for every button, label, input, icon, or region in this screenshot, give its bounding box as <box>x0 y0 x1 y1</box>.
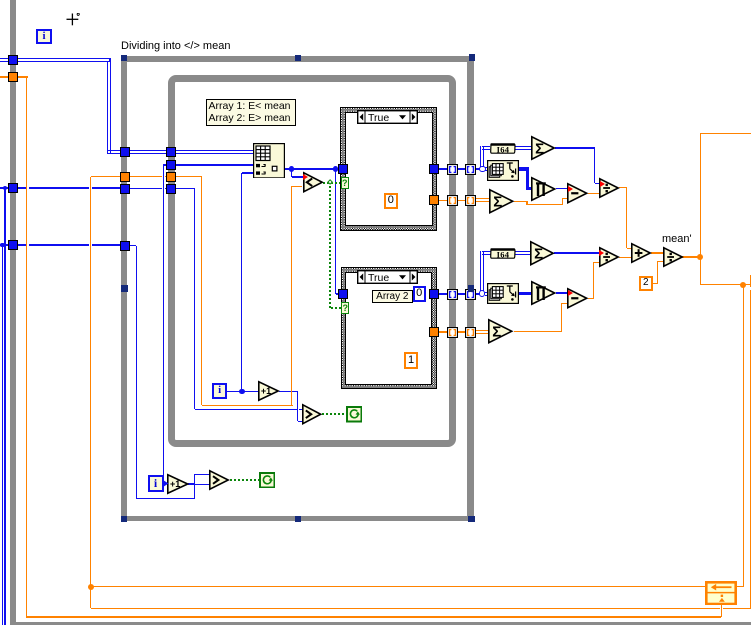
junction <box>289 166 295 172</box>
wire corner patch <box>107 152 109 155</box>
wire: divide2 out to add <box>619 257 632 258</box>
wire: array size down thick <box>526 167 530 190</box>
tunnel case2 right blue <box>429 289 439 299</box>
wire y245 into Dividing loop <box>18 244 26 245</box>
loop condition terminal inner <box>346 406 363 423</box>
wire: subtract2 out <box>588 298 594 299</box>
wire to junction 2 <box>476 293 480 295</box>
indexing tunnel loop2 blue y294 <box>465 289 476 300</box>
junction mean' <box>697 254 703 260</box>
wire between loop edges 2 <box>457 293 466 295</box>
wire: i into inner tunnel <box>163 164 168 165</box>
wire: 2D array to corner <box>18 58 111 62</box>
svg-text:+1: +1 <box>261 386 271 396</box>
while loop 1 left border <box>10 0 16 622</box>
tunnel loop2 blue y188 <box>120 184 130 194</box>
tunnel loop1 orange <box>8 72 18 82</box>
while loop 1 bottom border <box>10 622 751 625</box>
wire: sum down <box>594 148 595 183</box>
wire: 2 up <box>657 261 658 283</box>
boolean wire > to loop condition <box>322 413 347 415</box>
wire: prev mean seg2 <box>165 176 168 177</box>
wire: row down to case 2 <box>335 169 336 294</box>
wire: 1 constant <box>418 359 423 360</box>
wire: feedback output to left <box>91 586 706 587</box>
svg-text:Σ: Σ <box>492 324 501 341</box>
junction <box>3 186 8 191</box>
comment label box <box>206 99 296 126</box>
wire: sum orange out <box>514 201 528 202</box>
wire: DBL from left edge <box>0 76 11 77</box>
wire: right edge upper part <box>750 275 751 287</box>
junction circle 2 <box>479 290 486 297</box>
wire across <box>527 204 562 205</box>
indexing tunnel loop3 blue y294 <box>447 289 458 300</box>
Multiply Array Elements 1 <box>531 177 556 201</box>
wire into final divide bottom <box>658 261 663 262</box>
boolean wire to case2 selector <box>331 307 342 309</box>
wire: mean' to right edge <box>700 133 751 134</box>
wire I64 to sum 2 <box>515 251 530 255</box>
wire: array up to I64 2 <box>480 251 484 292</box>
wire: mean' down <box>700 257 701 285</box>
wire: 0 to case tunnel <box>397 200 430 201</box>
Subtract 2 <box>567 288 588 309</box>
wire y188 seg2 <box>29 187 89 188</box>
Greater? node bottom <box>209 470 229 490</box>
wire: sum out <box>555 147 595 148</box>
wire into divide2 bottom <box>594 262 599 263</box>
wire: DBL to corner <box>18 76 28 77</box>
tunnel loop3 2D array <box>166 147 176 157</box>
wire case1 to inner-loop tunnel <box>439 168 448 170</box>
wire: bottom long <box>91 608 720 609</box>
wire: inner i up to Index Array input 2 <box>241 173 242 392</box>
tunnel case1 right blue <box>429 164 439 174</box>
wire jog down <box>526 201 527 204</box>
wire y188 inside inner loop <box>176 188 195 189</box>
wire y245 seg3 <box>92 244 121 245</box>
wire into feedback node <box>736 586 744 587</box>
indexing tunnel loop2 orange y200 <box>465 195 476 206</box>
wire across case 1 <box>347 168 430 170</box>
label Array 2 <box>372 290 413 303</box>
wire: N2 down <box>136 246 137 499</box>
constant 1 (case 2) <box>404 352 418 369</box>
constant 0 blue (case 2) <box>413 286 426 302</box>
selection handle bottom-left <box>121 516 128 523</box>
tunnel case1 left blue <box>338 164 348 174</box>
junction <box>740 282 746 288</box>
wire: multiply out <box>556 188 568 189</box>
iteration terminal i Dividing loop <box>148 475 164 492</box>
junction on i wire <box>239 389 245 395</box>
tunnel loop2 blue y245 <box>120 241 130 251</box>
wire: I32 from left edge <box>0 187 11 188</box>
wire y188 to inner loop tunnel seg2 <box>165 188 168 189</box>
wire: N to > node after crossing <box>299 409 303 410</box>
case structure 1 <box>340 107 437 231</box>
wire: divide1 out <box>619 187 627 188</box>
wire: mean' up <box>700 133 701 257</box>
wire into Index Array input 2 <box>242 172 254 173</box>
wire into > top input <box>195 474 210 475</box>
Greater? node inner <box>302 404 322 425</box>
wire into > bottom input <box>195 484 210 485</box>
Divide 2 <box>599 247 619 267</box>
wire: 2D array into Dividing loop tunnel <box>107 150 122 154</box>
wire: add out to final divide <box>651 252 663 253</box>
wire: array size out thick <box>518 167 527 171</box>
tunnel loop1 blue y188 <box>8 183 18 193</box>
wire: prev mean down <box>201 177 202 405</box>
svg-text:True: True <box>368 112 389 124</box>
constant 2 <box>639 276 653 291</box>
wire y188 into Dividing loop <box>18 187 26 188</box>
Add Array Elements 3 orange (sum) <box>489 189 514 214</box>
wire: N down to > node <box>194 189 195 410</box>
wire between loop edges orange 2 <box>457 331 466 332</box>
wire I64 to sum <box>515 146 532 150</box>
wire y188 seg3 <box>92 187 121 188</box>
tunnel loop2 orange <box>120 172 130 182</box>
coercion dot divide1 <box>600 181 606 187</box>
tunnel loop1 2D array <box>8 55 18 65</box>
wire: DBL down left side <box>26 76 27 616</box>
Divide final (mean') <box>663 247 683 267</box>
Array Size node 2 <box>487 283 519 304</box>
wire: mean' out <box>682 256 700 257</box>
wire: prev mean inside inner loop <box>176 176 202 177</box>
wire: 2D array down <box>107 61 111 153</box>
wire: right edge down <box>750 290 751 608</box>
wire: orange array to sum <box>476 198 490 202</box>
wire: prev mean up to < node <box>291 186 292 405</box>
wire y245 seg2 <box>29 244 89 245</box>
wire: orange array to sum 2 <box>476 330 489 334</box>
wire: sum2 out <box>554 252 599 253</box>
Divide 1 <box>599 178 619 198</box>
wire: row array to case 1 <box>285 168 341 170</box>
case 2 selector terminal ? <box>341 302 349 314</box>
wire: N to > node <box>195 409 297 410</box>
wire: 2D array to inner loop tunnel <box>129 150 168 154</box>
loop condition terminal bottom <box>259 472 276 489</box>
wire: N2 along bottom <box>136 498 195 499</box>
wire into add top <box>627 248 631 249</box>
Increment node inner <box>258 381 279 401</box>
while loop 2 "Dividing into </> mean" border <box>121 56 474 522</box>
wire between loop edges orange <box>457 200 466 201</box>
wire: sum2 orange out <box>514 331 562 332</box>
junction circle 1 <box>479 166 486 173</box>
tunnel case1 right orange <box>429 195 439 205</box>
constant 0 (case 1) <box>384 193 398 209</box>
selection handle top-right <box>469 54 476 61</box>
I64 conversion node 1 <box>490 143 516 154</box>
wire: divide1 down <box>626 188 627 248</box>
wire into Dividing loop orange tunnel <box>91 176 122 177</box>
tunnel case2 left blue <box>338 289 348 299</box>
Add node <box>631 243 651 263</box>
boolean wire < to case1 selector <box>323 182 342 184</box>
wire: multiply2 out <box>556 292 568 293</box>
coercion dot < input <box>303 174 309 180</box>
wire into case 2 tunnel <box>336 293 341 294</box>
Multiply Array Elements 2 <box>531 281 556 305</box>
wire case1 orange out <box>439 200 448 201</box>
indexing tunnel loop3 orange y200 <box>447 195 458 206</box>
indexing tunnel loop2 orange y332 <box>465 327 476 338</box>
wire into array size <box>485 167 488 171</box>
selection handle bottom-mid <box>295 516 302 523</box>
Subtract 1 <box>567 183 588 204</box>
wire down off bottom 2 <box>2 245 3 625</box>
Add Array Elements 4 orange (sum) <box>488 319 513 344</box>
case 1 selector label True <box>357 110 418 124</box>
wire into subtract bottom <box>562 198 567 199</box>
wire: mean' right <box>700 284 750 285</box>
wire: 0 to case2 tunnel <box>426 293 431 295</box>
iteration terminal i outer loop <box>36 29 51 44</box>
svg-text:Σ: Σ <box>534 245 543 262</box>
wire case2 orange out <box>439 331 448 332</box>
tunnel loop2 2D array <box>120 147 130 157</box>
Less? node <box>303 172 323 193</box>
junction <box>0 243 5 248</box>
wire: 2D array from left edge <box>0 58 11 62</box>
wire: i+1 down <box>297 392 298 422</box>
wire y245 inside <box>129 245 136 246</box>
wire up to divide2 <box>593 262 594 298</box>
wire: initializer up <box>721 605 722 618</box>
case 2 selector label True <box>357 270 418 284</box>
wire: inner i to +1 <box>227 391 258 392</box>
wire into divide top <box>595 183 600 184</box>
boolean wire down to case2 <box>329 186 331 308</box>
wire to junction <box>476 168 480 170</box>
svg-text:I64: I64 <box>497 144 510 153</box>
wire case2 out <box>439 293 448 295</box>
wire: array size 2 out thick <box>518 292 531 296</box>
case 1 selector terminal ? <box>341 177 349 189</box>
Index Array node <box>253 143 285 179</box>
tunnel loop3 index <box>166 160 176 170</box>
label: Dividing into </> mean <box>121 40 230 52</box>
wire up to subtract2 <box>561 303 562 332</box>
tunnel loop1 blue y245 <box>8 240 18 250</box>
wire: prev mean across <box>202 405 293 406</box>
wire y188 to inner loop tunnel <box>129 188 162 189</box>
while loop 3 border <box>168 75 456 447</box>
Increment node bottom <box>167 474 189 494</box>
svg-text:Σ: Σ <box>535 140 544 157</box>
tunnel case2 right orange <box>429 327 439 337</box>
wire: i up to index tunnel <box>163 165 164 482</box>
wire: down to feedback node <box>743 285 744 587</box>
tunnel loop3 blue y188 <box>166 184 176 194</box>
coercion dot divide2 <box>599 250 605 256</box>
wire corner patch <box>109 58 111 61</box>
junction feedback <box>88 584 94 590</box>
selection handle top-left <box>121 55 128 62</box>
indexing tunnel loop3 blue y169 <box>447 164 458 175</box>
wire: 2D array to Index Array <box>176 150 254 154</box>
tunnel loop3 orange <box>166 172 176 182</box>
wire: N2 up to > node <box>194 474 195 498</box>
selection handle right-mid <box>468 285 475 292</box>
wire: i+1 bottom group <box>188 483 195 484</box>
wire: feedback up the left <box>90 177 91 609</box>
case structure 2 <box>341 267 438 389</box>
wire into I64 <box>482 146 490 150</box>
wire: row to < node <box>291 169 292 177</box>
wire into < top input <box>292 176 303 177</box>
wire: index to Index Array input 1 <box>176 164 254 165</box>
Add Array Elements 1 (sum) <box>531 136 555 160</box>
wire: i+1 into > bottom <box>298 421 303 422</box>
wire between loop edges <box>457 168 466 170</box>
selection handle bottom-right <box>468 516 475 523</box>
wire: array up to I64 <box>480 146 484 168</box>
boolean junction diamond <box>327 180 333 186</box>
iteration terminal i inner loop <box>212 383 227 398</box>
junction arrow at i output <box>163 480 169 487</box>
svg-text:+1: +1 <box>170 479 180 489</box>
wire: i+1 to > node <box>279 391 298 392</box>
svg-text:True: True <box>368 272 389 284</box>
wire: 1 into tunnel <box>423 331 430 332</box>
junction <box>333 166 339 172</box>
coercion dot subtract2 <box>568 290 574 296</box>
wire: bottom long after crossing <box>723 608 751 609</box>
wiring tool cursor <box>66 13 81 27</box>
wire: 2 constant out <box>653 283 658 284</box>
wire into multiply thick <box>526 187 532 191</box>
coercion dot subtract1 <box>568 186 574 192</box>
Add Array Elements 2 (sum) <box>530 241 554 266</box>
label mean' <box>662 233 692 245</box>
wire into < bottom input <box>292 186 303 187</box>
wire: I32 from left edge 2 <box>0 244 11 245</box>
wire: subtract out <box>588 193 600 194</box>
svg-text:Σ: Σ <box>493 193 502 210</box>
wire down off bottom <box>4 188 5 625</box>
wire into I64 2 <box>482 251 491 255</box>
wire into array size 2 <box>485 292 488 296</box>
wire: prev mean inside Dividing loop <box>129 176 162 177</box>
selection handle left-mid <box>121 285 128 292</box>
Array Size node 1 <box>487 160 519 181</box>
feedback node <box>705 581 737 605</box>
I64 conversion node 2 <box>490 248 516 259</box>
wire: 1 up <box>422 332 423 360</box>
wire into subtract2 bottom <box>562 303 568 304</box>
selection handle top-mid <box>295 55 302 62</box>
indexing tunnel loop3 orange y332 <box>447 327 458 338</box>
wire jog up <box>562 198 563 205</box>
boolean wire >2 to loop condition 2 <box>230 479 260 481</box>
indexing tunnel loop2 blue y169 <box>465 164 476 175</box>
wire: DBL along bottom to feedback initializer <box>26 616 721 617</box>
svg-text:I64: I64 <box>497 249 510 258</box>
